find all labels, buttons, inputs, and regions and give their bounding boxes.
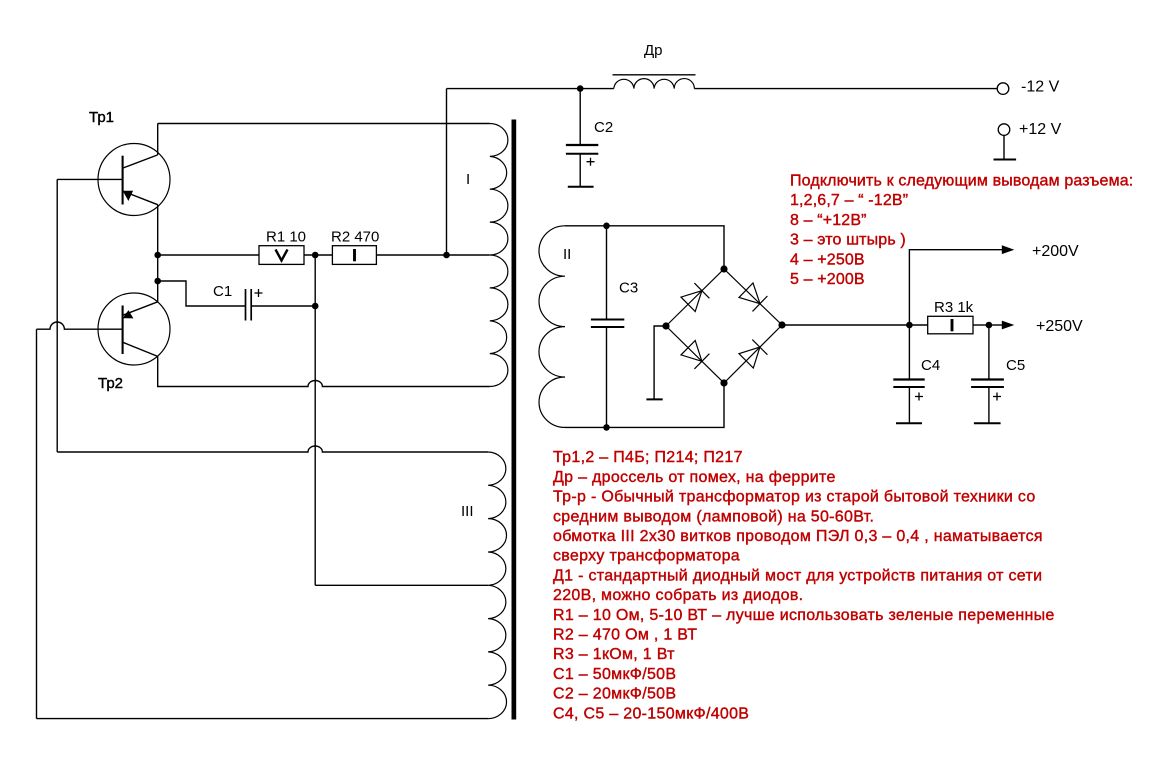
svg-text:Тр-р - Обычный трансформатор и: Тр-р - Обычный трансформатор из старой б… bbox=[553, 489, 1036, 506]
svg-text:C2: C2 bbox=[594, 119, 613, 136]
svg-text:R2 – 470 Ом , 1 ВТ: R2 – 470 Ом , 1 ВТ bbox=[553, 627, 697, 644]
wire junction vertical down to winding III mid tap bbox=[314, 255, 316, 585]
svg-text:Тр1: Тр1 bbox=[89, 109, 114, 126]
wire bridge right to R3 node bbox=[782, 324, 909, 326]
wire winding II bottom to bridge bbox=[565, 383, 724, 427]
terminal +12V circle bbox=[998, 124, 1010, 136]
resistor R1 V mark bbox=[276, 250, 288, 261]
wire C1 to junction bbox=[251, 305, 315, 307]
wire winding III top from left vertical with hop bbox=[57, 446, 488, 452]
capacitor C4 plus bbox=[915, 393, 923, 401]
wire Q1 base to left vertical bbox=[57, 178, 122, 180]
wire C5 vertical bbox=[988, 325, 990, 379]
capacitor C3 top plate bbox=[591, 319, 624, 321]
transformer winding I bbox=[490, 124, 508, 387]
wire R3 node to R3 bbox=[909, 324, 927, 326]
wire outer-left vertical from Q2 base down bbox=[36, 329, 38, 718]
svg-text:II: II bbox=[563, 246, 571, 263]
arrow +200V bbox=[1002, 245, 1015, 254]
svg-text:III: III bbox=[461, 503, 474, 520]
wire mid-tap up to top rail bbox=[446, 89, 448, 255]
svg-text:220В, можно собрать из диодов.: 220В, можно собрать из диодов. bbox=[553, 587, 803, 604]
svg-text:С5: С5 bbox=[1006, 357, 1025, 374]
svg-text:1,2,6,7 – “ -12В”: 1,2,6,7 – “ -12В” bbox=[790, 192, 908, 209]
wire emitters to R1 bbox=[158, 254, 259, 256]
capacitor C1 left plate bbox=[245, 289, 247, 321]
svg-text:обмотка III 2х30 витков провод: обмотка III 2х30 витков проводом ПЭЛ 0,3… bbox=[553, 528, 1043, 545]
inductor Dr core bar bbox=[613, 74, 696, 76]
wire R3 to C5 node bbox=[973, 324, 989, 326]
diode D-TR cathode bar bbox=[753, 296, 768, 311]
svg-text:+200V: +200V bbox=[1032, 243, 1079, 260]
svg-text:Тр1,2 – П4Б; П214; П217: Тр1,2 – П4Б; П214; П217 bbox=[553, 449, 743, 466]
diode D-TL cathode bar bbox=[694, 283, 709, 298]
wire Q2 collector down and right to winding I bottom with hop bbox=[158, 356, 490, 386]
svg-text:3 – это штырь ): 3 – это штырь ) bbox=[790, 232, 906, 249]
capacitor C1 plus bbox=[255, 289, 263, 297]
wire top rail to choke and -12V bbox=[447, 88, 614, 90]
capacitor C5 top plate bbox=[971, 378, 1004, 380]
diode D-BR triangle bbox=[739, 347, 760, 368]
svg-text:5 – +200В: 5 – +200В bbox=[790, 271, 865, 288]
transistor Q1 emitter diagonal bbox=[123, 191, 158, 205]
capacitor C4 top plate bbox=[893, 378, 924, 380]
svg-text:R3 – 1кОм, 1 Вт: R3 – 1кОм, 1 Вт bbox=[553, 646, 675, 663]
wire Q2 base lead with hop over Q1-base vertical bbox=[37, 322, 123, 329]
diode D-TR triangle bbox=[739, 283, 760, 304]
node mid-tap junction bbox=[443, 252, 450, 259]
node bridge bottom bbox=[720, 379, 727, 386]
wire winding II top to bridge bbox=[565, 226, 724, 269]
wire R1 to R2 bbox=[304, 254, 332, 256]
transformer core bbox=[512, 120, 517, 720]
svg-text:+12 V: +12 V bbox=[1019, 121, 1062, 138]
svg-text:4 – +250В: 4 – +250В bbox=[790, 251, 865, 268]
svg-text:сверху трансформатора: сверху трансформатора bbox=[553, 548, 740, 565]
wire C4 bottom bbox=[908, 387, 910, 423]
wire to +250V arrow bbox=[989, 324, 1003, 326]
capacitor C1 right plate bbox=[250, 289, 252, 321]
wire +12V stem bbox=[1003, 135, 1005, 159]
wire top to winding I top bbox=[158, 123, 490, 125]
diode D-BR cathode bar bbox=[752, 340, 767, 355]
svg-text:Др – дроссель от помех, на фер: Др – дроссель от помех, на феррите bbox=[553, 469, 836, 486]
wire Q1 collector up bbox=[157, 124, 159, 155]
svg-text:R1 – 10 Ом, 5-10 ВТ – лучше ис: R1 – 10 Ом, 5-10 ВТ – лучше использовать… bbox=[553, 607, 1055, 624]
ground C2 bbox=[568, 186, 594, 188]
svg-text:R1 10: R1 10 bbox=[266, 229, 306, 246]
capacitor C5 bottom plate bbox=[971, 386, 1004, 388]
transistor Q2 emitter arrow bbox=[123, 310, 134, 318]
wire C2 bottom bbox=[579, 154, 581, 187]
capacitor C2 bottom plate bbox=[566, 153, 598, 155]
svg-text:-12 V: -12 V bbox=[1021, 79, 1060, 96]
transistor Q1 collector diagonal bbox=[123, 155, 158, 168]
wire Q1 emitter to Q2 emitter vertical bbox=[157, 205, 159, 302]
node bridge right bbox=[778, 321, 785, 328]
wire C2 top bbox=[579, 89, 581, 144]
transistor Q1 base bar bbox=[122, 156, 124, 205]
node R1-R2 junction bbox=[312, 252, 319, 259]
svg-text:С3: С3 bbox=[619, 280, 638, 297]
wire up to +200V arrow bbox=[909, 250, 1003, 325]
node C2 top junction bbox=[577, 85, 584, 92]
svg-text:R2 470: R2 470 bbox=[331, 229, 379, 246]
svg-text:Д1 - стандартный диодный мост: Д1 - стандартный диодный мост для устрой… bbox=[553, 567, 1042, 584]
node bridge top bbox=[720, 265, 727, 272]
diode D-BL cathode bar bbox=[694, 354, 709, 369]
resistor R3 body bbox=[928, 316, 973, 334]
node winding II bottom junction bbox=[603, 424, 610, 431]
capacitor C2 plus bbox=[587, 158, 595, 166]
svg-text:8 – “+12В”: 8 – “+12В” bbox=[790, 212, 867, 229]
inductor Dr choke bumps bbox=[614, 79, 695, 89]
svg-text:C1: C1 bbox=[213, 283, 232, 300]
capacitor C5 plus bbox=[993, 393, 1001, 401]
node R3 left junction bbox=[906, 322, 913, 329]
ground C5 bbox=[974, 422, 1001, 424]
diode bridge D1 edges bbox=[666, 269, 782, 383]
node emitters junction C1 bbox=[154, 278, 161, 285]
wire bottom to winding III bottom bbox=[37, 718, 489, 720]
node C5 junction bbox=[986, 322, 993, 329]
capacitor C2 top plate bbox=[566, 144, 598, 146]
svg-text:Др: Др bbox=[644, 42, 663, 59]
ground +12V bbox=[994, 159, 1017, 161]
wire choke to -12V terminal bbox=[694, 88, 997, 90]
transformer winding III bbox=[488, 452, 506, 719]
ground bridge bbox=[646, 398, 662, 400]
red annotation bottom block bbox=[553, 449, 1055, 722]
transistor Q1 emitter arrow bbox=[123, 191, 133, 201]
transformer winding II bbox=[539, 226, 565, 428]
transistor Q2 (Tp2) circle bbox=[98, 293, 170, 365]
wire bridge left to ground bbox=[654, 326, 666, 399]
wire left vertical from Q1 base down to winding III top bbox=[56, 179, 58, 452]
transistor Q2 collector diagonal bbox=[123, 342, 158, 356]
resistor R1 body bbox=[259, 246, 304, 265]
capacitor C3 bottom plate bbox=[591, 326, 624, 328]
terminal -12V circle bbox=[997, 83, 1009, 95]
svg-text:С4, С5 – 20-150мкФ/400В: С4, С5 – 20-150мкФ/400В bbox=[553, 705, 749, 722]
resistor R2 body bbox=[332, 246, 376, 265]
svg-text:I: I bbox=[466, 171, 470, 188]
svg-text:С1 – 50мкФ/50В: С1 – 50мкФ/50В bbox=[553, 666, 676, 683]
transistor Q2 emitter diagonal bbox=[123, 302, 158, 316]
arrow +250V bbox=[1002, 321, 1015, 330]
ground C4 bbox=[896, 422, 922, 424]
transistor Q2 base bar bbox=[122, 306, 124, 355]
resistor R2 I mark bbox=[353, 249, 356, 261]
wire emitter junction to C1 bbox=[158, 281, 246, 306]
wire C4 vertical bbox=[908, 325, 910, 379]
capacitor C4 bottom plate bbox=[893, 386, 924, 388]
svg-text:средним выводом (ламповой) на: средним выводом (ламповой) на 50-60Вт. bbox=[553, 508, 874, 525]
wire C5 bottom bbox=[988, 387, 990, 423]
svg-text:С4: С4 bbox=[921, 357, 940, 374]
diode D-BL triangle bbox=[681, 341, 702, 362]
wire C3 vertical bbox=[606, 226, 608, 428]
diode D-TL triangle bbox=[681, 291, 702, 312]
wire R2 to winding I mid tap bbox=[376, 254, 489, 256]
transistor Q1 (Tp1) circle bbox=[98, 144, 170, 216]
node bridge left bbox=[662, 322, 669, 329]
node C1 junction bbox=[312, 303, 319, 310]
node emitters junction R1 bbox=[154, 252, 161, 259]
wire winding III mid tap bbox=[315, 584, 488, 586]
resistor R3 I mark bbox=[951, 319, 954, 331]
svg-text:С2 – 20мкФ/50В: С2 – 20мкФ/50В bbox=[553, 686, 676, 703]
svg-text:Тр2: Тр2 bbox=[98, 375, 123, 392]
svg-text:+250V: +250V bbox=[1036, 318, 1083, 335]
red annotation top block bbox=[790, 173, 1133, 289]
svg-text:R3 1k: R3 1k bbox=[934, 299, 974, 316]
svg-text:Подключить к следующим выводам: Подключить к следующим выводам разъема: bbox=[790, 173, 1133, 190]
node winding II top junction bbox=[603, 223, 610, 230]
